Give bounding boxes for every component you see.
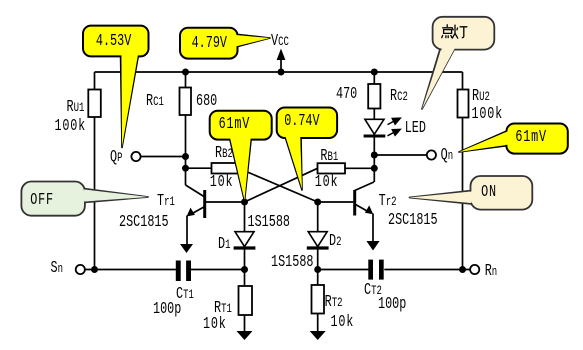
wire Sn input line — [85, 269, 245, 271]
callout balloon ON — [410, 176, 533, 210]
label 4.53V balloon text — [96, 32, 131, 49]
resistor RU2 — [458, 90, 469, 118]
wire RC2 branch — [373, 72, 375, 182]
callout balloon 4.79V — [180, 28, 270, 59]
LED light arrows — [388, 118, 401, 136]
terminal Sn — [76, 265, 85, 274]
label Rn — [485, 262, 498, 280]
wire RT1 leads — [244, 270, 246, 332]
label OFF balloon text — [30, 191, 54, 208]
diode D1 — [234, 232, 256, 248]
capacitor CT2 — [368, 260, 383, 280]
wire cross-coupling RB2 to Tr2 base — [239, 168, 318, 202]
label CT2 — [364, 281, 382, 299]
label RB1 — [320, 147, 338, 165]
wire D2 branch — [317, 202, 319, 270]
label 680 — [196, 92, 217, 109]
resistor RC2 — [368, 84, 380, 109]
terminal Qp — [131, 152, 140, 161]
label Qn — [441, 146, 454, 164]
power Vcc arrow — [277, 49, 286, 73]
wire RC1 branch — [185, 72, 187, 185]
transistor Tr2 — [318, 182, 374, 241]
label 10k RB2 — [210, 173, 234, 190]
ground for Tr1 emitter — [180, 244, 193, 253]
diode D2 — [307, 232, 329, 248]
label 100k RU1 — [55, 117, 87, 134]
label 2SC1815 Tr2 — [388, 211, 438, 228]
wire RB2 left lead — [186, 167, 212, 169]
junction RB2 node — [182, 165, 189, 172]
resistor RB2 — [212, 163, 239, 174]
label Sn — [51, 259, 64, 277]
terminal Rn — [470, 265, 479, 274]
ground for Tr2 emitter — [366, 241, 379, 251]
callout balloon 0.74V — [277, 108, 337, 191]
wire RB1 right lead — [345, 167, 374, 169]
junction RB1 node — [371, 165, 378, 172]
junction Qn node — [371, 152, 378, 159]
label ON balloon text — [481, 183, 497, 200]
label LED — [405, 119, 426, 136]
junction D2-RT2 — [314, 266, 321, 273]
label 10k RT1 — [203, 315, 227, 332]
resistor RC1 — [180, 88, 192, 116]
wire cross-coupling RB1 to Tr1 base — [245, 168, 318, 202]
junction Tr2 base node — [314, 199, 321, 206]
label Vcc — [271, 32, 289, 50]
wire top Vcc rail — [95, 71, 463, 73]
callout balloon 4.53V — [83, 26, 149, 148]
label 4.79V balloon text — [192, 34, 227, 51]
label 10k RB1 — [315, 173, 339, 190]
wire D1 branch — [244, 202, 246, 270]
capacitor CT1 — [176, 261, 191, 282]
label Ru2 — [472, 87, 490, 105]
label tento (lit) kanji text — [442, 24, 468, 38]
label Tr2 — [379, 192, 397, 210]
transistor Tr1 — [186, 185, 245, 244]
label 100k RU2 — [472, 105, 504, 122]
terminal Qn — [427, 150, 436, 159]
wire left pull-up branch — [94, 72, 96, 270]
junction rail-Vcc — [278, 69, 285, 76]
LED diode symbol — [364, 119, 386, 136]
junction rail-RC2 — [371, 69, 378, 76]
label RB2 — [215, 144, 233, 162]
label Ru1 — [67, 98, 85, 116]
callout balloon OFF — [21, 182, 148, 216]
label RT2 — [325, 293, 343, 311]
resistor RT1 — [239, 286, 253, 315]
resistor RB1 — [318, 163, 346, 173]
label 0.74V balloon text — [284, 112, 319, 129]
label Tr1 — [157, 192, 175, 210]
wire Rn input line — [318, 269, 470, 271]
ground for RT1 — [237, 331, 253, 340]
label Rc1 — [146, 92, 164, 110]
label 10k RT2 — [331, 313, 355, 330]
label Qp — [110, 148, 123, 166]
wire RU2 branch — [462, 72, 464, 270]
wire Qn output — [374, 154, 426, 156]
wire Qp output — [141, 156, 186, 158]
junction rail-RC1 — [182, 69, 189, 76]
callout balloon 61mV right — [459, 124, 568, 154]
label 100p CT2 — [378, 295, 406, 312]
junction D1-RT1 — [241, 266, 248, 273]
label RT1 — [214, 299, 232, 317]
label 1S1588 D2 — [271, 253, 313, 270]
label 2SC1815 Tr1 — [119, 213, 169, 230]
callout balloon tento (lit) — [422, 17, 494, 109]
wire RT2 leads — [317, 270, 319, 332]
label 61mV right balloon text — [515, 128, 547, 145]
junction Rn-RU2 — [459, 266, 466, 273]
label 100p CT1 — [153, 300, 181, 317]
junction Qp node — [182, 153, 189, 160]
ground for RT2 — [310, 331, 326, 340]
junction Tr1 base node — [241, 199, 248, 206]
label Rc2 — [390, 87, 408, 105]
label 1S1588 D1 — [248, 213, 290, 230]
label D1 — [218, 235, 231, 253]
label 470 — [336, 85, 357, 102]
label D2 — [329, 232, 342, 250]
label 61mV left balloon text — [219, 115, 251, 132]
resistor RU1 — [88, 90, 101, 118]
label CT1 — [176, 285, 194, 303]
callout balloon 61mV left — [210, 111, 272, 201]
junction Sn-RU1 — [91, 266, 98, 273]
resistor RT2 — [312, 285, 325, 314]
